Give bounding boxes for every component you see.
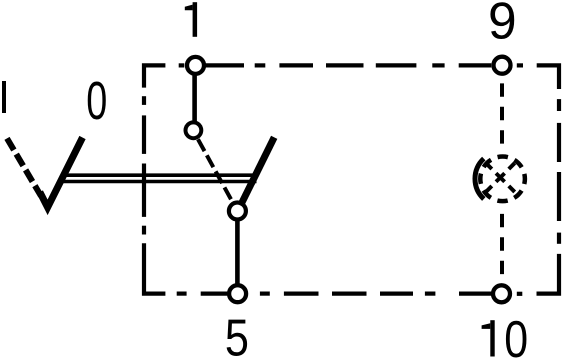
label 1 (terminal 1) flag xyxy=(185,5,193,11)
rocker bar upper line xyxy=(67,173,254,177)
lamp cross arm NW xyxy=(486,163,492,169)
wire bottom border dot 1 xyxy=(425,292,436,296)
svg-text:0: 0 xyxy=(86,70,107,130)
wire top border dash 6 xyxy=(517,63,523,67)
node frame bottom-right corner xyxy=(537,254,560,294)
wire from moving contact to terminal 5 xyxy=(235,220,240,284)
wire bottom border dash 5 xyxy=(284,292,319,296)
terminal 9 xyxy=(494,57,511,74)
wire from lamp down to terminal 10 (dashed) xyxy=(500,214,504,274)
wire top border dot 3 xyxy=(432,63,444,67)
lamp cross arm NE xyxy=(509,163,515,169)
wire bottom border dash 6 xyxy=(201,292,228,296)
wire bottom border dash 4 xyxy=(332,292,367,296)
node frame top-left corner xyxy=(144,65,165,87)
lamp L dashed circle xyxy=(480,157,525,202)
node frame top-right corner xyxy=(537,65,559,89)
wire bottom border dot 2 xyxy=(260,292,270,296)
wire top border dash 1 xyxy=(206,63,244,67)
wire right border dot 1 xyxy=(557,99,561,111)
wire left border dot 2 xyxy=(142,96,146,105)
wire bottom border dash 2 xyxy=(459,292,491,296)
wire top border dot 1 xyxy=(179,63,185,67)
wire from terminal 1 down to fixed contact xyxy=(192,74,197,122)
wire left border dash 1 xyxy=(142,164,146,217)
wire right border dash 1 xyxy=(557,123,561,162)
label 10 (terminal 10) digit 1 stem xyxy=(490,320,494,356)
actuator position I dashed xyxy=(7,138,41,196)
moving contact circle xyxy=(229,203,246,220)
wire top border dash 5 xyxy=(459,63,492,67)
lamp reflector arc xyxy=(475,159,484,199)
wire top border dot 2 xyxy=(255,63,266,67)
terminal 1 xyxy=(187,57,204,74)
wire top border dash 3 xyxy=(326,63,364,67)
wire left border dot 1 xyxy=(142,226,146,235)
terminal 5 xyxy=(229,285,246,302)
svg-text:9: 9 xyxy=(488,0,517,49)
label 1 (terminal 1) stem xyxy=(193,2,198,37)
wire bottom border dash 1 xyxy=(517,292,523,296)
lamp center cross stroke 1 xyxy=(496,173,505,182)
wire left border dash 2 xyxy=(142,115,146,153)
lamp cross arm SW xyxy=(486,186,492,192)
actuator lever right xyxy=(241,137,275,205)
rocker bar lower line xyxy=(63,180,257,184)
lamp center cross stroke 2 xyxy=(496,173,505,182)
svg-text:5: 5 xyxy=(225,310,249,359)
actuator lever left with pivot arm xyxy=(40,138,83,208)
fixed contact circle of pole 1 xyxy=(186,122,202,138)
dashed link from fixed contact to moving contact xyxy=(198,139,233,202)
label 10 (terminal 10) digit 1 flag xyxy=(482,323,491,329)
svg-text:0: 0 xyxy=(504,311,528,359)
wire right border dot 2 xyxy=(557,233,561,244)
terminal 10 xyxy=(493,285,510,302)
node frame bottom-left corner xyxy=(144,243,165,293)
wire top border dash 2 xyxy=(279,63,313,67)
label I (position I) xyxy=(2,81,6,113)
wire right border dash 2 xyxy=(557,172,561,221)
wire bottom border dash 3 xyxy=(380,292,413,296)
wire from terminal 9 down to lamp (dashed) xyxy=(500,83,504,143)
lamp cross arm SE xyxy=(509,186,515,192)
wire bottom border dot 3 xyxy=(177,292,187,296)
wire top border dash 4 xyxy=(376,63,417,67)
